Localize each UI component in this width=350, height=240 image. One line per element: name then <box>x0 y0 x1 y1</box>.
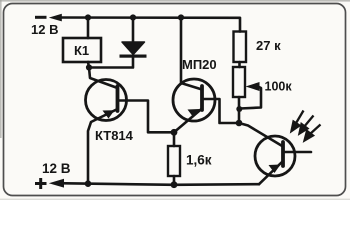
wire pot wiper return <box>240 87 261 109</box>
wire phototransistor emitter to rail <box>259 161 283 184</box>
node C (Q2 base / divider / phototransistor) <box>236 120 243 127</box>
node top rail / K1 junction <box>85 14 91 20</box>
minus terminal arrow (top left) <box>49 14 62 22</box>
node pot bottom junction <box>236 106 242 112</box>
minus sign <box>35 16 47 19</box>
wire 27k top stub <box>239 30 242 33</box>
potentiometer R2 100k body <box>233 67 245 97</box>
svg-text:1,6к: 1,6к <box>186 153 212 168</box>
wire Q2 emitter to node B <box>174 109 202 133</box>
node R3 bottom on bottom rail <box>171 181 178 188</box>
diode VD1 cathode bar <box>120 55 147 58</box>
wire diode bottom L to node A <box>89 57 133 68</box>
wire Q2 collector drop from top rail <box>181 18 202 90</box>
wire top rail <box>57 18 240 32</box>
transistor Q2 base bar <box>200 86 204 110</box>
transistor Q1 emitter arrow (PNP, points to bar) <box>103 110 115 118</box>
transistor Q2 emitter arrow (PNP) <box>188 109 200 118</box>
node top rail / diode junction <box>130 14 136 20</box>
potentiometer R2 wiper arrow <box>246 82 260 91</box>
scan shading bottom edge <box>0 199 350 200</box>
wire Q2 base to node C <box>203 99 239 123</box>
node A (K1 bottom / diode / Q1 collector) <box>86 64 92 70</box>
wire bottom rail <box>57 183 259 185</box>
svg-text:12 В: 12 В <box>31 22 58 37</box>
node top rail / Q2 collector junction <box>178 14 184 20</box>
resistor R3 1.6k body <box>168 146 180 176</box>
svg-text:МП20: МП20 <box>182 57 217 72</box>
svg-text:К1: К1 <box>74 43 89 58</box>
phototransistor VT3 circle <box>255 136 295 176</box>
svg-text:КТ814: КТ814 <box>95 128 134 143</box>
wire phototransistor base lead <box>284 151 311 154</box>
plus terminal arrow (bottom left) <box>49 179 64 188</box>
node Q1 emitter on bottom rail <box>85 180 92 187</box>
svg-text:27 к: 27 к <box>256 38 281 53</box>
transistor Q1 base bar <box>116 86 120 111</box>
wire Q1 emitter to bottom rail <box>88 109 118 184</box>
phototransistor base bar <box>281 142 285 166</box>
scan shading left edge <box>0 0 2 138</box>
transistor Q1 KT814 circle <box>86 80 127 121</box>
svg-text:12 В: 12 В <box>42 161 71 176</box>
transistor Q2 MP20 circle <box>173 79 215 121</box>
diode VD1 triangle <box>122 42 145 55</box>
wire diode top drop <box>132 18 135 43</box>
wire Q1 base to node B <box>118 101 174 133</box>
light arrow 1 <box>292 111 304 132</box>
wire K1 top drop <box>87 18 90 39</box>
scan shading top edge <box>0 0 350 2</box>
phototransistor emitter arrow (PNP) <box>269 165 281 174</box>
svg-text:100к: 100к <box>265 80 293 94</box>
light arrow 2 <box>300 116 314 134</box>
light arrow 3 <box>305 125 321 141</box>
wire node C to phototransistor collector <box>239 123 283 147</box>
wire 100k bottom to node C <box>238 97 241 123</box>
wire Q1 collector from node A <box>89 68 118 89</box>
plus sign <box>35 178 47 189</box>
wire K1 bottom to node A <box>88 62 89 68</box>
wire 1.6k top from node B <box>173 132 176 147</box>
wire 1.6k bottom to rail <box>173 176 176 185</box>
relay K1 box <box>63 38 101 62</box>
node B (Q1 base / Q2 emitter / R3 top) <box>171 129 178 136</box>
border frame <box>4 4 346 196</box>
wire 27k to 100k stub <box>238 62 241 67</box>
resistor R1 27k body <box>234 32 247 63</box>
